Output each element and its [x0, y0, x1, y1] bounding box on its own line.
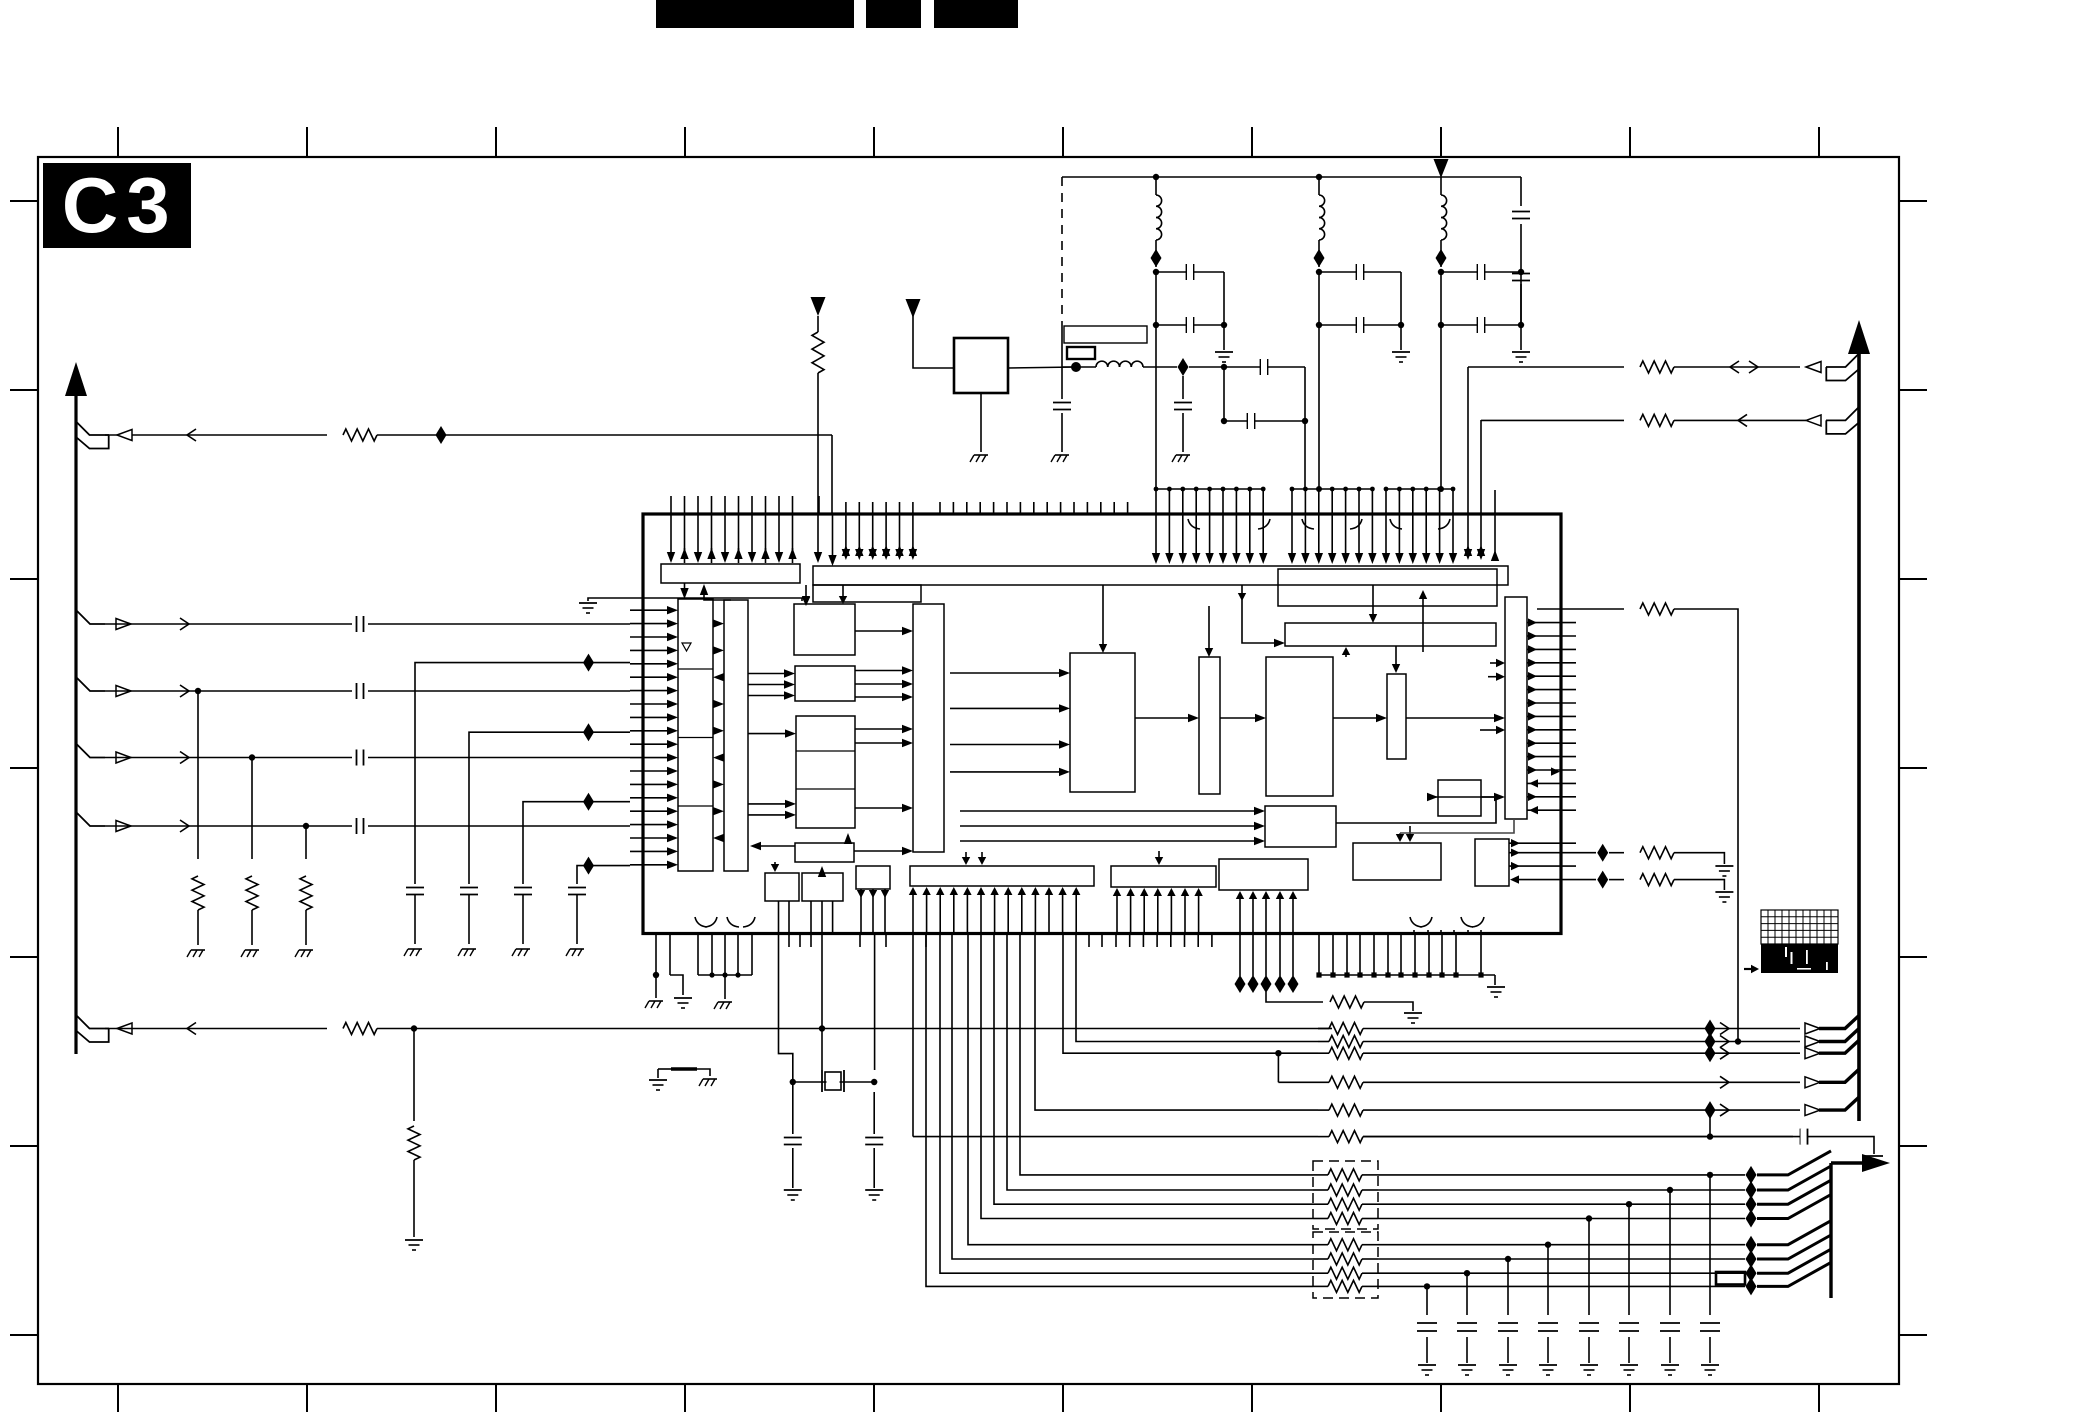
wire [981, 934, 1313, 1219]
supply arrow 2 [906, 299, 921, 318]
IC bottom left pins [655, 934, 657, 976]
open triangle B [116, 619, 131, 630]
ground [462, 948, 476, 950]
IC pin box T2 [1111, 866, 1216, 887]
IC box O [1266, 657, 1333, 796]
wire [832, 514, 834, 559]
chevron [1720, 1076, 1729, 1088]
capacitor C5 [1182, 376, 1184, 399]
IC box S [1353, 843, 1441, 880]
wire [1076, 934, 1318, 1042]
feeder arrows boxE [950, 672, 1059, 674]
ground [408, 948, 422, 950]
wire busD-colN [1208, 606, 1210, 650]
bidir arrow [1551, 767, 1560, 775]
capacitor C10 [406, 887, 424, 889]
wire C [105, 690, 630, 692]
wire [1223, 367, 1225, 421]
wire B [105, 623, 630, 625]
capacitor C24 [1669, 1190, 1671, 1315]
wire [1400, 272, 1402, 325]
arrow busP-busD up [1422, 592, 1424, 652]
wire [1304, 367, 1306, 421]
IC bottom diamond pins [1239, 934, 1241, 977]
ground [516, 948, 530, 950]
net diamond [583, 857, 594, 875]
node dot 2b [1316, 322, 1322, 328]
net diamond [1746, 1166, 1757, 1184]
connector hook E2 [76, 812, 105, 826]
wire [926, 934, 1313, 1287]
arrow into S top [1409, 826, 1411, 836]
IC ground wire [588, 598, 643, 601]
IC pin box T1 [910, 866, 1094, 886]
wire [1061, 322, 1063, 367]
IC top pins group2 [845, 502, 847, 553]
svg-text:3: 3 [126, 161, 169, 249]
arrow boxU-colQ [1481, 796, 1494, 798]
IC pin box T3 [1219, 859, 1308, 890]
IC column Q [1505, 597, 1527, 819]
IC box F [794, 604, 855, 655]
wire stub [818, 496, 820, 514]
node dot 3a [1438, 269, 1444, 275]
double chevron [1749, 361, 1758, 373]
node dot O3 branch [1275, 1050, 1281, 1056]
dashed resistor box 2 [1313, 1232, 1378, 1298]
IC bottom cup pins [1413, 930, 1415, 934]
chevron [1720, 1036, 1729, 1048]
wire [817, 373, 819, 556]
wire A [105, 434, 327, 436]
node dot [1667, 1187, 1673, 1193]
arrows col2-boxG [748, 673, 784, 675]
node dot L2 [1316, 174, 1322, 180]
jumper [658, 1068, 671, 1070]
connector hook [1826, 354, 1859, 368]
capacitor C30 [1426, 1286, 1428, 1315]
arrow I-J [774, 862, 776, 866]
capacitor C25 [1628, 1204, 1630, 1315]
wire stub [1494, 514, 1496, 560]
net diamond [583, 723, 594, 741]
wire [1155, 272, 1157, 325]
capacitor C3a [1441, 271, 1521, 273]
arrows below L2 [860, 889, 862, 934]
arrow into T2 top [1158, 851, 1160, 859]
IC box B [813, 585, 921, 602]
connector hook A [76, 422, 109, 436]
wire [1480, 420, 1482, 552]
resistor R11 [1278, 1081, 1329, 1083]
wire boxR-boxU [1336, 797, 1496, 823]
wire [1008, 367, 1076, 368]
title bar redacted 1 [656, 0, 854, 28]
IC col1-col2 arrows [713, 623, 716, 625]
chevron E [187, 1023, 196, 1035]
capacitor C13 [568, 887, 586, 889]
net diamond [1746, 1210, 1757, 1228]
arrow [1511, 849, 1520, 857]
connector hook C [76, 677, 105, 691]
wire [1440, 272, 1442, 325]
chevron E2 [180, 820, 189, 832]
border bottom tick marks [117, 1384, 119, 1412]
connector hook E [76, 1015, 109, 1029]
capacitor C7 [1224, 420, 1305, 422]
chevron D [180, 752, 189, 764]
arrow busD-busP [1372, 585, 1374, 616]
IC top pins group1 [670, 496, 672, 556]
capacitor C28 [1507, 1259, 1509, 1315]
node dot [1586, 1215, 1592, 1221]
border left tick marks [10, 200, 38, 202]
connector hook [1819, 1069, 1859, 1082]
node dot [1221, 418, 1227, 424]
capacitor C23 [1709, 1175, 1711, 1315]
wire busD-P [1242, 585, 1274, 643]
arrows colQ left [1496, 659, 1505, 667]
supply rail wire [1062, 176, 1521, 178]
wire rise [1757, 1180, 1831, 1204]
ground gnd3 [1520, 325, 1522, 350]
wire [1467, 367, 1469, 552]
connector hook D [76, 744, 105, 758]
net diamond L3 [1436, 249, 1447, 267]
open triangle C [116, 686, 131, 697]
open triangle E2 [116, 821, 131, 832]
wire [1189, 366, 1224, 368]
IC box H [796, 716, 855, 828]
resistor R17 [1328, 1213, 1362, 1225]
IC column 2 [724, 600, 748, 871]
resistor R6 [413, 1029, 415, 1122]
wire [1378, 1203, 1745, 1205]
page border frame [38, 157, 1899, 1384]
wire W2 [1480, 419, 1482, 421]
net diamond A [436, 426, 447, 444]
IC top fence group3 [1386, 488, 1453, 490]
node dot [1464, 1270, 1470, 1276]
IC column 1 [678, 599, 713, 871]
node dot [1545, 1242, 1551, 1248]
chevron [1720, 1047, 1729, 1059]
node dot [1221, 364, 1227, 370]
small component box [1716, 1272, 1745, 1285]
arrow K-I up [818, 866, 826, 877]
wire [913, 314, 954, 368]
node dot E [411, 1025, 417, 1031]
inductor L3 [1440, 177, 1442, 195]
wire [1378, 1285, 1745, 1287]
node dot 3b [1438, 322, 1444, 328]
capacitor C26 [1588, 1219, 1590, 1316]
right bus arrow [1848, 320, 1870, 354]
arrow up busA [700, 584, 708, 595]
bottom bus [1829, 1163, 1832, 1298]
arrow busB-boxF [805, 598, 807, 602]
net diamond [1746, 1195, 1757, 1213]
connector hook [1819, 1097, 1859, 1110]
IC box E [1070, 653, 1135, 792]
wire [1378, 1189, 1745, 1191]
wire busD-boxE [1102, 585, 1104, 646]
arrow boxF-colM [855, 630, 902, 632]
node dot [871, 1079, 877, 1085]
arrow boxI-col2 [750, 842, 761, 850]
wire [952, 934, 1313, 1260]
arrows boxH-colM [855, 728, 902, 730]
bottom bus arrow [1831, 1161, 1868, 1164]
capacitor C4 [1061, 367, 1063, 399]
net diamond [1705, 1020, 1716, 1038]
wire [913, 1136, 1318, 1138]
wire feeder 1 [415, 663, 630, 884]
wire D [105, 757, 630, 759]
resistor R20 [1328, 1267, 1362, 1279]
wire [940, 934, 1313, 1274]
arrow busA-col1 [684, 583, 686, 592]
open triangle [1805, 1077, 1820, 1088]
wire rise [1757, 1249, 1831, 1273]
resistor R0 [812, 332, 824, 373]
wire [821, 934, 823, 1071]
ground [570, 948, 584, 950]
capacitor C6 [1224, 366, 1305, 368]
wire bus line [912, 934, 914, 1137]
title bar redacted 3 [934, 0, 1018, 28]
wire [1520, 272, 1522, 325]
chevron C [180, 685, 189, 697]
wire [779, 934, 793, 1083]
IC sm2 pins [1509, 842, 1576, 844]
wire E [105, 1028, 327, 1030]
arrow H-I up [844, 833, 852, 844]
wire O5-O6 diamond link [1709, 1110, 1711, 1137]
waveform icon [1761, 910, 1838, 944]
feeder arrows boxR [960, 810, 1254, 812]
resistor R16 [1328, 1198, 1362, 1210]
net diamond [1746, 1264, 1757, 1282]
wire [1155, 325, 1157, 489]
chevron [1720, 1023, 1729, 1035]
node dot [1505, 1256, 1511, 1262]
wire rise [1757, 1166, 1831, 1190]
wire feeder 3 [523, 802, 630, 884]
capacitor E2 [352, 817, 368, 835]
ground [1055, 454, 1069, 456]
capacitor D [352, 749, 368, 767]
right bus [1857, 344, 1861, 1121]
wire [1020, 934, 1313, 1175]
node dot 2a [1316, 269, 1322, 275]
resistor R19 [1328, 1253, 1362, 1265]
wire [1304, 421, 1306, 489]
IC box K [802, 873, 843, 901]
IC bus D [813, 566, 1508, 585]
IC top fence group1 [1156, 488, 1263, 490]
IC box L2 [856, 866, 890, 889]
arrow boxI-colM [854, 850, 902, 852]
dashed wire segment [1061, 177, 1063, 322]
IC bottom pin cups [1410, 917, 1422, 927]
IC bottom pin cups left [695, 917, 707, 927]
node dot E2 [819, 1025, 825, 1031]
capacitor C3c [1520, 177, 1522, 206]
net diamond [1178, 358, 1189, 376]
border right tick marks [1899, 200, 1927, 202]
open triangle [1805, 1036, 1820, 1047]
resistor R18 [1328, 1239, 1362, 1251]
chevron [1738, 414, 1747, 426]
wire feeder 4 [577, 866, 630, 884]
wire R-gnd 1 [1509, 852, 1596, 854]
wire [994, 934, 1313, 1205]
IC top fence group2 [1292, 488, 1372, 490]
capacitor C27 [1547, 1245, 1549, 1315]
wire [968, 934, 1313, 1245]
resistor R13 [1318, 1136, 1329, 1138]
node dot 1b [1153, 322, 1159, 328]
inductor L4 [1096, 361, 1108, 367]
left bus [74, 378, 77, 1054]
net diamond [583, 654, 594, 672]
ground [579, 602, 597, 604]
open triangle [1805, 1023, 1820, 1034]
IC column S2 [1387, 674, 1406, 759]
crystal X1 [825, 1072, 841, 1090]
chevron [1720, 1104, 1729, 1116]
net diamond [1705, 1033, 1716, 1051]
open triangle [1805, 1105, 1820, 1116]
wire A drop [831, 435, 833, 514]
capacitor C21 [873, 1092, 875, 1134]
label box small [1067, 347, 1095, 359]
resistor R8 [1318, 1028, 1329, 1030]
wire [1378, 1244, 1745, 1246]
capacitor C22 [1363, 1136, 1793, 1138]
capacitor C [352, 682, 368, 700]
IC box sm2 [1475, 839, 1509, 886]
resistor R4 [305, 826, 307, 859]
resistor R2 [197, 691, 199, 859]
wire [1378, 1218, 1745, 1220]
wire W1 [1468, 366, 1624, 368]
arrow busP-colS2 [1395, 646, 1397, 667]
open triangle [1805, 1048, 1820, 1059]
wire [793, 1081, 874, 1083]
wire [1143, 366, 1177, 368]
capacitor C1a [1156, 271, 1224, 273]
net diamond [1746, 1181, 1757, 1199]
net diamond [1705, 1044, 1716, 1062]
net diamond [1746, 1250, 1757, 1268]
tuner box U2 [954, 338, 1008, 393]
net diamond [1746, 1277, 1757, 1295]
wire rise [1757, 1262, 1831, 1286]
IC colQ pin arrows [1527, 622, 1576, 624]
node dot D [249, 754, 255, 760]
IC bottom pin stubs [788, 934, 790, 948]
wire stub [1494, 490, 1496, 514]
IC column M [913, 604, 944, 852]
chain row arrows [1135, 717, 1188, 719]
IC top pin stubs [939, 502, 941, 514]
wire R-gnd 2 [1510, 875, 1519, 883]
label box [1064, 326, 1147, 343]
arrow busD-boxF [805, 585, 807, 599]
connector hook [1819, 1016, 1859, 1029]
supply arrow [1434, 159, 1449, 178]
net diamond L1 [1151, 249, 1162, 267]
capacitor C1b [1156, 324, 1224, 326]
arrows col2-boxH [748, 733, 785, 735]
wire [1440, 325, 1442, 489]
inductor L1 [1155, 177, 1157, 195]
wire [1035, 934, 1318, 1111]
arrows boxG-colM [855, 670, 902, 672]
designator triangle [682, 643, 691, 651]
open triangle A [117, 430, 132, 441]
node dot O2 [1735, 1038, 1741, 1044]
wire [817, 316, 819, 332]
IC bottom fence [1318, 934, 1320, 976]
wire rise [1757, 1151, 1831, 1175]
left bus arrow [65, 362, 87, 396]
resistor R7 [1266, 992, 1323, 1002]
node dot [790, 1079, 796, 1085]
wire [1318, 325, 1320, 489]
IC box G [795, 666, 855, 701]
open triangle E [117, 1023, 132, 1034]
connector hook [1826, 407, 1859, 421]
resistor R21 [1328, 1280, 1362, 1292]
capacitor C12 [514, 887, 532, 889]
chevron B [180, 618, 189, 630]
wire E [377, 1028, 1318, 1030]
wire [1223, 272, 1225, 325]
node dot E2 [303, 823, 309, 829]
IC box I [795, 843, 854, 862]
grid label C3 box [43, 163, 191, 248]
IC box J [765, 873, 799, 901]
net diamond [1746, 1236, 1757, 1254]
IC bus P [1285, 623, 1496, 646]
resistor R5 [343, 1023, 377, 1035]
wire row609 [1537, 608, 1624, 610]
title bar redacted 2 [866, 0, 921, 28]
dashed resistor box 1 [1313, 1161, 1378, 1229]
net diamond [583, 793, 594, 811]
wire E2 [105, 825, 630, 827]
capacitor C2a [1319, 271, 1401, 273]
ground gnd2 [1400, 325, 1402, 350]
IC bottom pin group [697, 934, 699, 976]
wire [1378, 1272, 1745, 1274]
ground [1176, 454, 1190, 456]
resistor R1 [343, 429, 377, 441]
node dot C [195, 688, 201, 694]
wire colQ-S [1400, 819, 1514, 833]
chevron A [187, 429, 196, 441]
resistor R3 [251, 758, 253, 860]
IC boxJK bottom pins [778, 901, 780, 934]
net diamond L2 [1314, 249, 1325, 267]
node dot L1 [1153, 174, 1159, 180]
node dot [1626, 1201, 1632, 1207]
net diamond [1705, 1101, 1716, 1119]
capacitor C29 [1466, 1273, 1468, 1315]
